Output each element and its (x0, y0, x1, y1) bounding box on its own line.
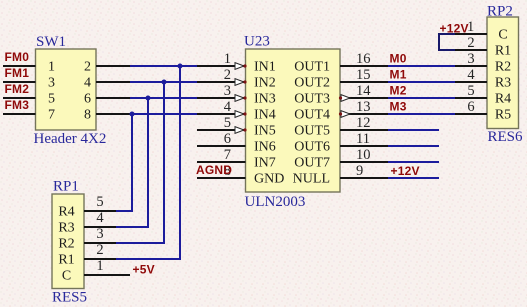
wire M1 (388, 81, 455, 83)
pin IN7 (197, 161, 246, 163)
svg-text:M1: M1 (390, 68, 407, 82)
svg-text:OUT4: OUT4 (294, 108, 330, 123)
pin joint dots U23 (243, 64, 342, 131)
svg-text:FM2: FM2 (5, 82, 30, 96)
svg-text:4: 4 (224, 99, 232, 115)
svg-text:FM0: FM0 (5, 50, 30, 64)
svg-text:5: 5 (467, 83, 474, 99)
svg-text:14: 14 (356, 83, 371, 99)
svg-text:16: 16 (356, 51, 371, 67)
svg-text:R5: R5 (495, 108, 511, 123)
svg-text:+5V: +5V (133, 263, 155, 277)
svg-text:6: 6 (84, 92, 91, 107)
wire pin10 stub (388, 161, 439, 163)
svg-text:OUT3: OUT3 (294, 92, 330, 107)
svg-text:R1: R1 (495, 44, 511, 59)
pin RP1-1 +5V wire (84, 274, 130, 276)
svg-text:OUT1: OUT1 (294, 60, 330, 75)
svg-text:3: 3 (48, 76, 55, 91)
connector SW1 body (36, 49, 97, 130)
svg-text:2: 2 (224, 67, 231, 83)
svg-text:4: 4 (84, 76, 91, 91)
svg-text:6: 6 (224, 131, 231, 147)
wire FM3 row (130, 113, 197, 115)
svg-text:R3: R3 (495, 76, 511, 91)
pin RP1-2 stub (84, 258, 116, 260)
svg-text:3: 3 (96, 226, 103, 242)
resistor pack RP1 body (52, 194, 84, 289)
svg-text:M3: M3 (390, 100, 407, 114)
svg-text:+12V: +12V (391, 164, 420, 178)
svg-text:R4: R4 (495, 92, 511, 107)
wire FM0 row (130, 65, 197, 67)
svg-text:Header 4X2: Header 4X2 (34, 131, 107, 147)
pin IN1 (197, 65, 246, 67)
junction on FM3 (130, 112, 135, 117)
pin RP1-3 stub (84, 242, 116, 244)
pin stub SW1-1 (3, 65, 36, 67)
svg-text:GND: GND (254, 172, 284, 187)
svg-text:OUT2: OUT2 (294, 76, 330, 91)
svg-text:RP1: RP1 (53, 179, 79, 195)
svg-text:1: 1 (48, 60, 55, 75)
pin OUT5 stub (340, 129, 388, 131)
input triangle pin2 (235, 79, 244, 86)
svg-text:IN5: IN5 (254, 124, 276, 139)
pin stub SW1-7 (3, 113, 36, 115)
pin RP2-2 stub (455, 49, 487, 51)
pin IN5 (197, 129, 246, 131)
svg-text:10: 10 (356, 147, 371, 163)
input triangle pin5 (235, 127, 244, 134)
svg-text:7: 7 (48, 108, 55, 123)
svg-text:SW1: SW1 (36, 34, 66, 50)
svg-text:IN3: IN3 (254, 92, 276, 107)
+12V loop wire pins 1-2 (439, 34, 455, 50)
svg-text:1: 1 (467, 19, 474, 35)
pin OUT6 stub (340, 145, 388, 147)
pin IN3 (197, 97, 246, 99)
pin NULL stub (340, 177, 388, 179)
svg-text:IN2: IN2 (254, 76, 276, 91)
svg-text:R4: R4 (58, 205, 74, 220)
junction on FM1 (162, 80, 167, 85)
svg-text:7: 7 (224, 147, 231, 163)
vertical wire FM0 to RP1 pin2 (116, 66, 180, 259)
svg-text:OUT7: OUT7 (294, 156, 330, 171)
pin OUT7 stub (340, 161, 388, 163)
svg-text:NULL: NULL (293, 172, 330, 187)
pin OUT1 stub (340, 65, 388, 67)
svg-text:M0: M0 (390, 52, 407, 66)
svg-text:2: 2 (96, 242, 103, 258)
pin GND wire (197, 177, 246, 179)
svg-text:2: 2 (467, 35, 474, 51)
wire FM2 row (130, 97, 197, 99)
svg-text:2: 2 (84, 60, 91, 75)
svg-text:R2: R2 (495, 60, 511, 75)
svg-text:OUT6: OUT6 (294, 140, 330, 155)
svg-text:1: 1 (96, 258, 103, 274)
pin IN6 (197, 145, 246, 147)
svg-text:OUT5: OUT5 (294, 124, 330, 139)
pin stub SW1-4 (96, 81, 130, 83)
output triangle pin14 (341, 95, 350, 102)
svg-text:15: 15 (356, 67, 371, 83)
svg-text:IN4: IN4 (254, 108, 276, 123)
pin RP2-1 stub (455, 33, 487, 35)
svg-text:+12V: +12V (440, 22, 469, 36)
pin RP2-3 stub (455, 65, 487, 67)
pin RP1-4 stub (84, 226, 116, 228)
pin stub SW1-8 (96, 113, 130, 115)
svg-text:RP2: RP2 (487, 4, 513, 20)
svg-text:C: C (62, 269, 71, 284)
pin stub SW1-2 (96, 65, 130, 67)
svg-text:1: 1 (224, 51, 231, 67)
input triangle pin1 (235, 63, 244, 70)
svg-text:3: 3 (224, 83, 231, 99)
svg-text:FM1: FM1 (5, 66, 30, 80)
svg-text:11: 11 (356, 131, 370, 147)
svg-text:6: 6 (467, 99, 474, 115)
pin stub SW1-6 (96, 97, 130, 99)
svg-text:13: 13 (356, 99, 371, 115)
pin OUT2 stub (340, 81, 388, 83)
vertical wire FM3 to RP1 pin5 (116, 114, 132, 211)
pin RP2-5 stub (455, 97, 487, 99)
pin IN4 (197, 113, 246, 115)
svg-text:R2: R2 (58, 237, 74, 252)
junction on FM2 (146, 96, 151, 101)
svg-text:C: C (498, 28, 507, 43)
svg-text:3: 3 (467, 51, 474, 67)
pin OUT3 stub (340, 97, 388, 99)
svg-text:9: 9 (356, 163, 363, 179)
pin stub SW1-3 (3, 81, 36, 83)
svg-text:12: 12 (356, 115, 371, 131)
vertical wire FM2 to RP1 pin4 (116, 98, 148, 227)
svg-text:5: 5 (48, 92, 55, 107)
svg-text:FM3: FM3 (5, 98, 30, 112)
svg-text:RES6: RES6 (488, 129, 524, 145)
svg-text:5: 5 (96, 194, 103, 210)
junction on FM0 (178, 64, 183, 69)
pin RP2-6 stub (455, 113, 487, 115)
pin IN2 (197, 81, 246, 83)
svg-text:4: 4 (96, 210, 104, 226)
svg-text:IN7: IN7 (254, 156, 276, 171)
input triangle pin4 (235, 111, 244, 118)
vertical wire FM1 to RP1 pin3 (116, 82, 164, 243)
wire pin11 stub (388, 145, 439, 147)
svg-text:RES5: RES5 (52, 290, 87, 306)
svg-text:R1: R1 (58, 253, 74, 268)
wire pin12 stub (388, 129, 439, 131)
op-amp U23 body (246, 49, 341, 192)
svg-text:U23: U23 (244, 34, 270, 50)
svg-text:5: 5 (224, 115, 231, 131)
svg-text:ULN2003: ULN2003 (245, 194, 306, 210)
wire M2 (388, 97, 455, 99)
wire M3 (388, 113, 455, 115)
svg-text:M2: M2 (390, 84, 407, 98)
svg-text:IN6: IN6 (254, 140, 276, 155)
wire pin9 +12V (388, 177, 439, 179)
svg-text:AGND: AGND (196, 163, 232, 177)
output triangle pin13 (341, 111, 350, 118)
svg-text:4: 4 (467, 67, 475, 83)
resistor pack RP2 body (487, 17, 519, 129)
svg-text:IN1: IN1 (254, 60, 276, 75)
pin RP2-4 stub (455, 81, 487, 83)
pin OUT4 stub (340, 113, 388, 115)
svg-text:8: 8 (84, 108, 91, 123)
wire M0 (388, 65, 455, 67)
pin stub SW1-5 (3, 97, 36, 99)
pin RP1-5 stub (84, 210, 116, 212)
svg-text:R3: R3 (58, 221, 74, 236)
input triangle pin3 (235, 95, 244, 102)
wire FM1 row (130, 81, 197, 83)
